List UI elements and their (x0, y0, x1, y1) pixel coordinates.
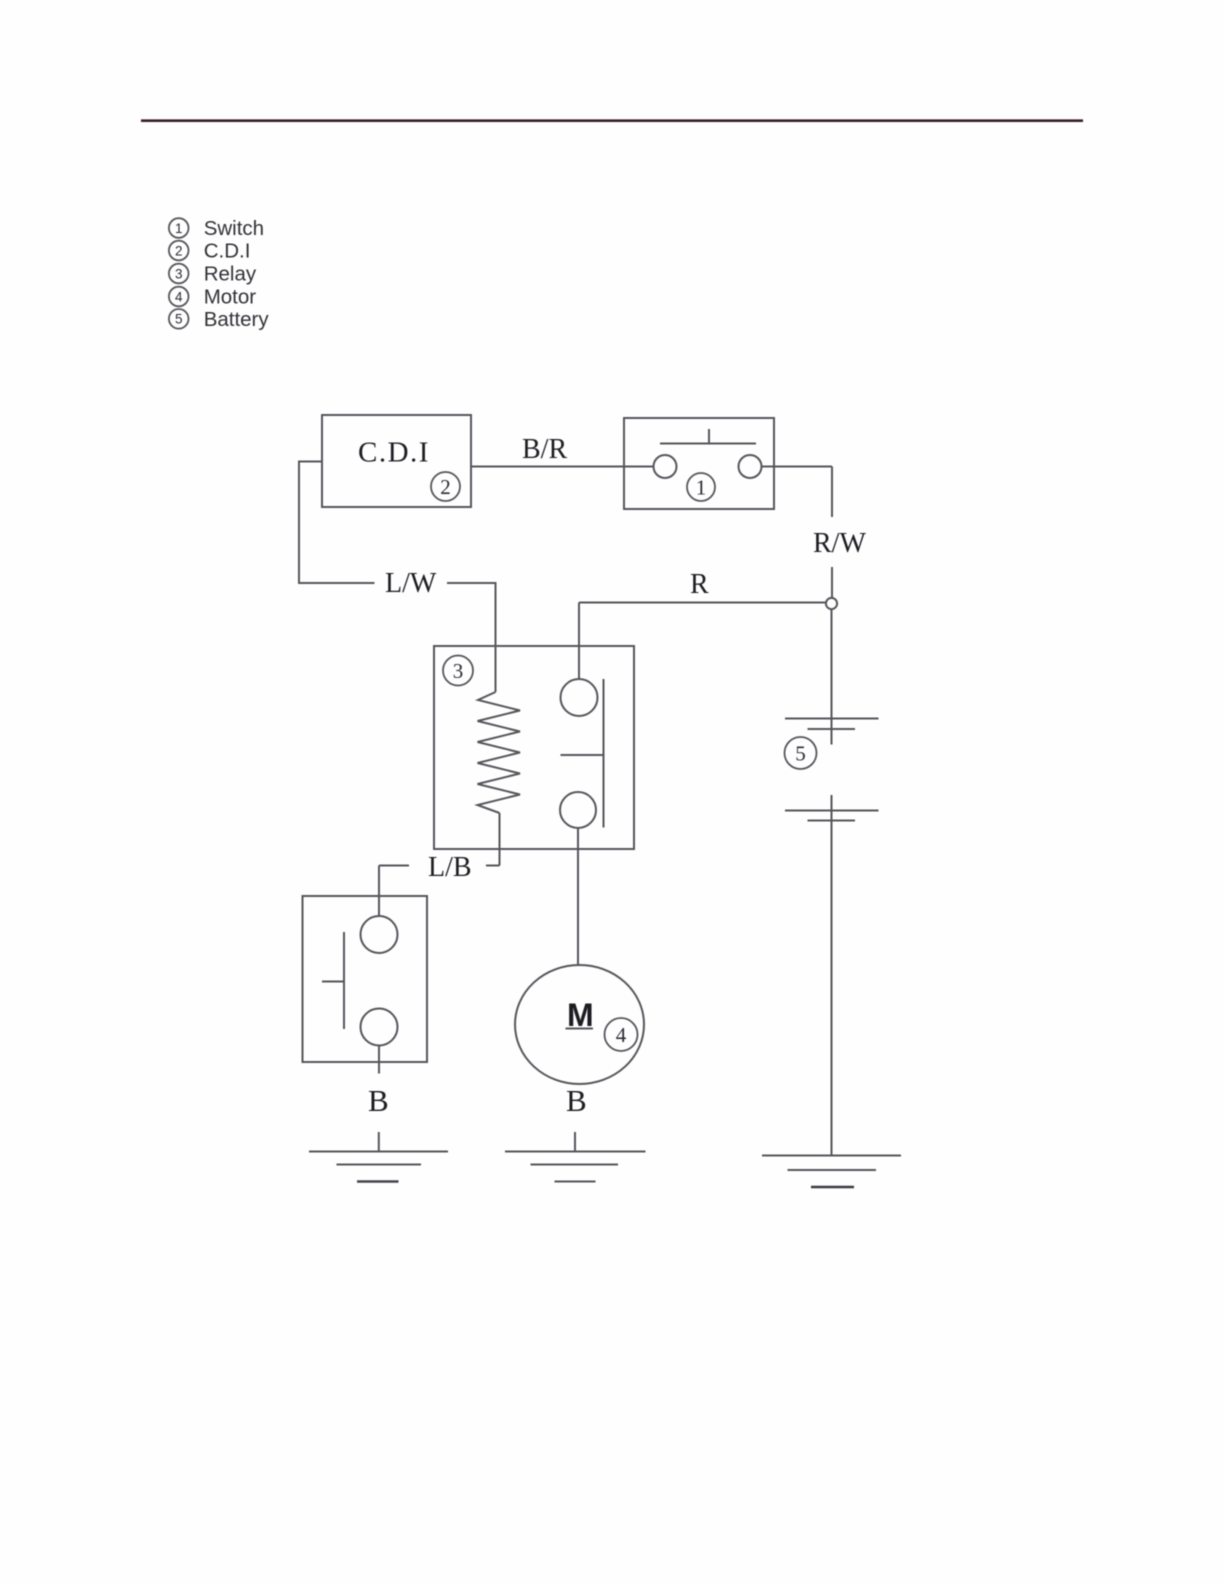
svg-text:R: R (690, 569, 709, 600)
svg-text:R/W: R/W (813, 528, 866, 559)
svg-text:4: 4 (175, 289, 183, 304)
svg-text:4: 4 (616, 1023, 627, 1047)
svg-text:5: 5 (795, 742, 806, 766)
svg-text:Switch: Switch (204, 217, 264, 240)
svg-text:L/W: L/W (385, 568, 437, 599)
svg-text:C.D.I: C.D.I (358, 437, 430, 469)
svg-text:B/R: B/R (522, 434, 567, 465)
svg-text:2: 2 (175, 243, 183, 258)
svg-text:Relay: Relay (204, 263, 257, 286)
svg-text:3: 3 (453, 659, 464, 683)
svg-text:B: B (566, 1083, 587, 1118)
svg-text:B: B (368, 1083, 389, 1118)
svg-text:1: 1 (175, 221, 183, 236)
svg-text:5: 5 (175, 312, 183, 327)
svg-text:Battery: Battery (204, 308, 270, 331)
svg-text:Motor: Motor (204, 286, 257, 309)
svg-text:L/B: L/B (428, 852, 472, 883)
svg-text:2: 2 (440, 475, 451, 499)
svg-text:1: 1 (696, 476, 707, 500)
svg-text:C.D.I: C.D.I (204, 240, 251, 263)
svg-text:3: 3 (175, 266, 183, 281)
